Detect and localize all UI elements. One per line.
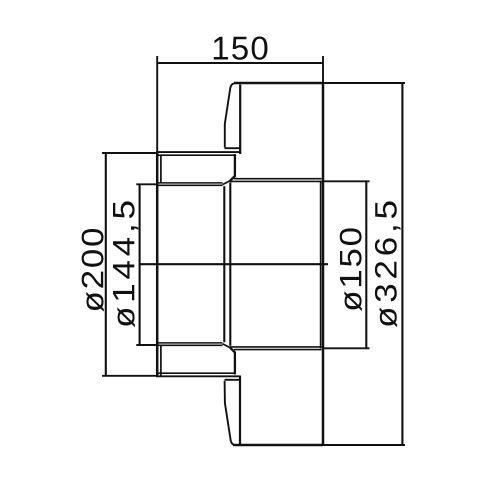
label o144,5 [113,201,138,327]
dimension diameter 150 (inner right) [324,181,370,348]
part: o200 shell [156,152,240,376]
part: inner pipe [157,179,323,350]
ext line top of o326,5 [323,82,405,84]
dim line o200 [105,153,107,376]
ext line bottom of o150 [324,347,370,349]
bore bottom inner line [157,342,223,344]
dimension diameter 200 (outer left) [102,153,157,376]
dimension diameter 144,5 (inner left) [136,184,158,345]
o200 top face upper line [156,151,240,153]
left inner edge lower [160,345,162,376]
cone inner vertical bottom [239,376,241,445]
dim line 150 [157,62,323,64]
cone inner vertical top [239,85,241,155]
internal vertical left [223,186,225,342]
socket end inner lip [320,182,322,349]
bore top inner line [157,184,223,186]
cone slant top-left [225,83,234,147]
socket top outer line [234,178,322,180]
left inner edge upper [160,155,162,184]
socket bottom inner line [230,346,323,348]
ext line bottom of o144,5 [136,344,158,346]
internal vertical right [229,183,231,346]
ext line bottom of o200 [102,375,157,377]
ledge top [225,147,240,149]
bore top outer line [157,182,223,184]
ext line right of 150 [322,56,324,83]
ext line top of o150 [324,180,370,182]
o200 top face lower line [157,154,236,156]
ledge bottom [225,379,240,381]
cone slant bottom-left [225,381,234,445]
shell right wall top [230,154,235,181]
socket bottom outer line [234,349,322,351]
dim line o326,5 [401,83,403,445]
left end face [156,152,159,376]
bottom edge of large cylinder [233,444,323,447]
bore bottom outer line [157,344,223,346]
centerline axis [141,263,329,265]
ext line bottom of o326,5 [323,444,405,446]
top edge of large cylinder [234,82,323,85]
dim line o144,5 [139,184,141,345]
shell right wall bottom [230,347,235,374]
o200 bottom face lower line [156,375,240,377]
ext line top of o144,5 [136,183,158,185]
dim line o150 [365,181,367,348]
label o326,5 [375,201,401,327]
dimension diameter 326,5 (right) [323,83,405,445]
socket top inner line [230,180,323,182]
label o150 [340,228,362,311]
ext line left of 150 [156,56,158,152]
dimension 150 (top) [157,56,323,152]
expansion diagonal bottom [223,344,230,348]
label o200 [82,229,104,312]
label 150 [214,37,268,60]
right end face of large cylinder [322,83,325,445]
part outline: large cylinder o326.5 [225,83,324,445]
expansion diagonal top [223,181,230,185]
o200 bottom face upper line [157,372,236,374]
ext line top of o200 [102,152,157,154]
